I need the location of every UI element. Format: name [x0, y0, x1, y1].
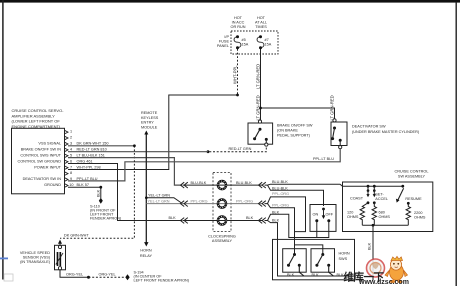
svg-text:RESUME: RESUME — [405, 197, 422, 201]
svg-text:DK GRN-WHT: DK GRN-WHT — [64, 233, 89, 237]
svg-text:LEFT FRONT FENDER APRON): LEFT FRONT FENDER APRON) — [134, 279, 190, 283]
svg-text:BLU-BLK: BLU-BLK — [272, 180, 288, 184]
svg-text:PANEL: PANEL — [217, 44, 229, 48]
svg-text:RELAY: RELAY — [140, 254, 153, 258]
svg-text:(IN TRANSAXLE): (IN TRANSAXLE) — [20, 260, 51, 264]
svg-text:PPL-ORG: PPL-ORG — [191, 199, 208, 203]
svg-text:(UNDER BRAKE MASTER CYLINDER): (UNDER BRAKE MASTER CYLINDER) — [352, 130, 420, 134]
svg-text:4: 4 — [70, 148, 72, 152]
svg-text:1: 1 — [70, 130, 72, 134]
svg-text:AMPLIFIER ASSEMBLY: AMPLIFIER ASSEMBLY — [12, 113, 56, 118]
svg-text:ORG-YEL: ORG-YEL — [66, 273, 83, 277]
svg-text:FENDER APRON): FENDER APRON) — [90, 217, 122, 221]
svg-text:ENTRY: ENTRY — [141, 121, 154, 125]
svg-text:BRAKE ON/OFF SW: BRAKE ON/OFF SW — [277, 124, 313, 128]
svg-text:OFF: OFF — [326, 213, 334, 217]
svg-text:CRUISE CONTROL: CRUISE CONTROL — [395, 170, 429, 174]
svg-text:5: 5 — [70, 153, 72, 157]
svg-text:LT GRN-RED: LT GRN-RED — [255, 95, 260, 120]
svg-text:CRUISE CONTROL SERVO-: CRUISE CONTROL SERVO- — [12, 108, 65, 113]
svg-text:GROUND: GROUND — [44, 183, 61, 187]
svg-text:BLK: BLK — [169, 216, 177, 220]
svg-text:BLK: BLK — [312, 273, 320, 277]
svg-text:15A: 15A — [265, 43, 272, 47]
svg-text:6: 6 — [70, 159, 72, 163]
svg-text:3: 3 — [70, 142, 72, 146]
svg-text:I/P: I/P — [224, 35, 229, 39]
svg-text:MODULE: MODULE — [141, 126, 158, 130]
svg-text:BRAKE ON/OFF SW IN: BRAKE ON/OFF SW IN — [21, 148, 62, 152]
svg-text:120: 120 — [347, 210, 353, 214]
svg-text:RED-LT GRN: RED-LT GRN — [229, 147, 252, 151]
svg-text:LT GRN-RED: LT GRN-RED — [329, 95, 334, 120]
svg-text:DK GRN-WHT 150: DK GRN-WHT 150 — [77, 142, 109, 146]
svg-text:680: 680 — [379, 210, 385, 214]
svg-text:OHMS: OHMS — [379, 215, 391, 219]
svg-text:BLK: BLK — [272, 211, 280, 215]
svg-text:TIMES: TIMES — [255, 25, 267, 29]
svg-text:(ON BRAKE: (ON BRAKE — [277, 129, 298, 133]
svg-text:OHMS: OHMS — [347, 215, 359, 219]
svg-text:ORG-YEL: ORG-YEL — [99, 273, 116, 277]
svg-text:PPL-LT BLU: PPL-LT BLU — [313, 157, 334, 161]
svg-text:PPL-ORG: PPL-ORG — [272, 192, 289, 196]
svg-text:ON: ON — [313, 213, 319, 217]
svg-text:15A: 15A — [242, 43, 249, 47]
svg-text:DEACTIVATOR SW IN: DEACTIVATOR SW IN — [23, 177, 62, 181]
svg-text:BLU-BLK: BLU-BLK — [191, 181, 207, 185]
svg-text:2: 2 — [70, 136, 72, 140]
svg-text:BLK: BLK — [368, 242, 372, 250]
svg-text:SWS: SWS — [339, 257, 348, 261]
svg-text:RED-LT GRN 810: RED-LT GRN 810 — [77, 148, 107, 152]
svg-text:PPL-LT BLU: PPL-LT BLU — [77, 177, 98, 181]
svg-text:COAST: COAST — [350, 197, 364, 201]
svg-text:www.dzsc.com: www.dzsc.com — [358, 279, 409, 286]
svg-text:AT ALL: AT ALL — [255, 21, 267, 25]
svg-text:ACCEL: ACCEL — [375, 197, 388, 201]
svg-text:LT BLU-BLK 151: LT BLU-BLK 151 — [77, 153, 105, 157]
svg-text:VEHICLE SPEED: VEHICLE SPEED — [20, 251, 50, 255]
svg-text:CLOCKSPRING: CLOCKSPRING — [208, 235, 236, 239]
svg-text:WHT-PPL 298: WHT-PPL 298 — [77, 165, 101, 169]
svg-text:#5: #5 — [242, 38, 246, 42]
svg-text:YEL-LT GRN: YEL-LT GRN — [148, 193, 170, 197]
svg-text:BLK 57: BLK 57 — [77, 183, 89, 187]
svg-text:HORN: HORN — [140, 249, 151, 253]
svg-text:HOT: HOT — [257, 16, 266, 20]
svg-text:LT GRN-RED: LT GRN-RED — [255, 64, 260, 89]
svg-text:BLK: BLK — [246, 216, 254, 220]
svg-text:ORG 461: ORG 461 — [77, 159, 93, 163]
svg-text:CONTROL SWS INPUT: CONTROL SWS INPUT — [20, 153, 61, 157]
svg-text:DEACTIVATOR SW: DEACTIVATOR SW — [352, 125, 386, 129]
svg-text:BLU-BLK: BLU-BLK — [272, 187, 288, 191]
svg-text:SW ASSEMBLY: SW ASSEMBLY — [398, 175, 426, 179]
svg-text:IN ACC: IN ACC — [232, 21, 245, 25]
svg-text:OR RUN: OR RUN — [231, 25, 246, 29]
svg-text:SENSOR (VSS): SENSOR (VSS) — [23, 256, 51, 260]
svg-text:ENGINE COMPARTMENT): ENGINE COMPARTMENT) — [12, 124, 61, 129]
svg-text:CONTROL SW GROUND: CONTROL SW GROUND — [17, 159, 61, 163]
svg-text:10: 10 — [69, 183, 73, 187]
svg-text:2200: 2200 — [414, 211, 422, 215]
svg-text:BLK: BLK — [96, 189, 100, 197]
svg-text:#7: #7 — [265, 38, 269, 42]
svg-text:VSS SIGNAL: VSS SIGNAL — [38, 142, 61, 146]
svg-text:(LOWER LEFT FRONT OF: (LOWER LEFT FRONT OF — [12, 119, 61, 124]
svg-text:7: 7 — [70, 165, 72, 169]
svg-text:OHMS: OHMS — [414, 216, 426, 220]
svg-text:FUSE: FUSE — [219, 40, 230, 44]
svg-text:BLK: BLK — [272, 219, 280, 223]
svg-text:HORN: HORN — [339, 252, 350, 256]
svg-text:PPL-ORG: PPL-ORG — [272, 204, 289, 208]
svg-text:ASSEMBLY: ASSEMBLY — [212, 239, 233, 243]
svg-text:KEYLESS: KEYLESS — [141, 116, 159, 120]
svg-text:8: 8 — [70, 171, 72, 175]
svg-text:WHT-PPL: WHT-PPL — [232, 65, 237, 84]
svg-text:BLU-BLK: BLU-BLK — [236, 181, 252, 185]
svg-text:HOT: HOT — [234, 16, 243, 20]
svg-text:REMOTE: REMOTE — [141, 111, 158, 115]
svg-text:PEDAL SUPPORT): PEDAL SUPPORT) — [277, 134, 311, 138]
svg-text:YEL-LT GRN: YEL-LT GRN — [148, 199, 170, 203]
svg-text:POWER INPUT: POWER INPUT — [34, 165, 61, 169]
svg-text:BLK: BLK — [287, 273, 295, 277]
svg-text:9: 9 — [70, 177, 72, 181]
svg-text:PPL-ORG: PPL-ORG — [236, 199, 253, 203]
